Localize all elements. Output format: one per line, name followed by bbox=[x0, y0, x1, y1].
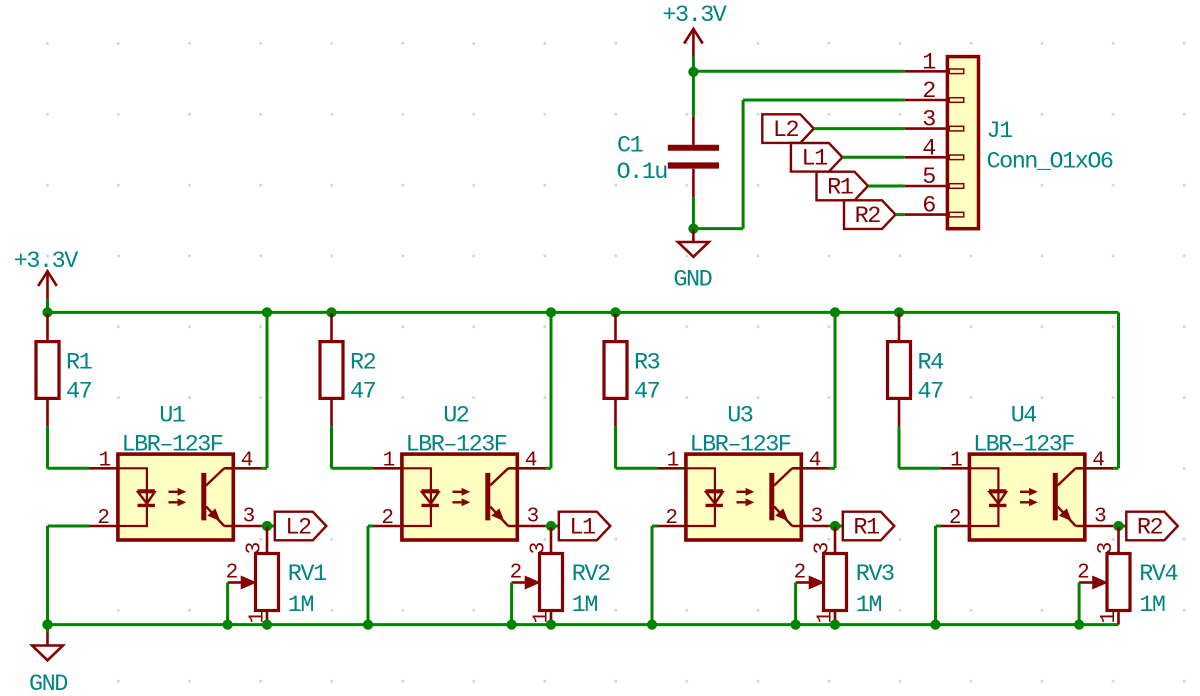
pin 1 U2 bbox=[374, 467, 402, 470]
svg-text:4: 4 bbox=[1092, 449, 1104, 472]
junction bbox=[647, 620, 657, 630]
svg-text:R2: R2 bbox=[1137, 514, 1163, 541]
pin 3 U3 bbox=[792, 525, 830, 528]
pin 3 U4 bbox=[1076, 525, 1114, 528]
connector J1 bbox=[947, 57, 978, 229]
light arrows inside U4 bbox=[1020, 491, 1033, 493]
svg-text:3: 3 bbox=[527, 506, 539, 529]
wire bbox=[332, 467, 374, 470]
LED inside U4 bbox=[969, 468, 998, 505]
junction bbox=[610, 307, 620, 317]
svg-text:47: 47 bbox=[918, 378, 944, 405]
svg-text:R4: R4 bbox=[918, 350, 944, 377]
svg-text:2: 2 bbox=[794, 562, 806, 585]
svg-text:3: 3 bbox=[811, 506, 823, 529]
svg-text:1: 1 bbox=[950, 449, 962, 472]
svg-text:GND: GND bbox=[673, 267, 711, 294]
svg-text:LBR–123F: LBR–123F bbox=[973, 432, 1074, 459]
wiper pin 2 RV4 bbox=[1079, 581, 1094, 584]
svg-text:1M: 1M bbox=[1139, 592, 1165, 619]
svg-text:1M: 1M bbox=[856, 592, 882, 619]
svg-text:U4: U4 bbox=[1011, 403, 1037, 430]
global label L1 bbox=[559, 512, 611, 541]
svg-text:O.1u: O.1u bbox=[617, 159, 668, 186]
potentiometer RV1 bbox=[266, 527, 269, 554]
potentiometer RV4 bbox=[1117, 527, 1120, 554]
junction bbox=[791, 620, 801, 630]
wire bbox=[692, 197, 695, 228]
global label L2 bbox=[275, 512, 327, 541]
transistor inside U4 bbox=[1053, 473, 1058, 521]
wire bbox=[830, 467, 835, 470]
svg-text:2: 2 bbox=[949, 507, 961, 530]
svg-text:L1: L1 bbox=[569, 514, 595, 541]
junction bbox=[262, 521, 272, 531]
wire bbox=[1078, 583, 1081, 625]
svg-text:4: 4 bbox=[809, 449, 821, 472]
transistor inside U1 bbox=[201, 473, 206, 521]
svg-text:4: 4 bbox=[922, 135, 935, 162]
wire bbox=[46, 299, 49, 313]
wire bbox=[899, 467, 941, 470]
transistor inside U2 bbox=[485, 473, 490, 521]
wire bbox=[743, 99, 905, 102]
svg-text:1: 1 bbox=[99, 449, 111, 472]
svg-text:R1: R1 bbox=[853, 514, 879, 541]
global label R1 bbox=[817, 172, 869, 201]
wire bbox=[652, 525, 658, 528]
pin 1 U4 bbox=[941, 467, 969, 470]
pin 5 J1 bbox=[905, 185, 948, 188]
svg-text:C1: C1 bbox=[617, 133, 643, 160]
svg-text:2: 2 bbox=[97, 507, 109, 530]
wire bbox=[48, 311, 1119, 314]
power symbol +3.3V bbox=[692, 28, 695, 56]
wire bbox=[692, 72, 695, 117]
svg-text:R3: R3 bbox=[634, 350, 660, 377]
svg-text:1M: 1M bbox=[288, 592, 314, 619]
wire bbox=[46, 427, 49, 469]
svg-text:2: 2 bbox=[1077, 562, 1089, 585]
power symbol +3.3V bbox=[46, 271, 49, 299]
svg-text:+3.3V: +3.3V bbox=[14, 248, 78, 275]
svg-text:1: 1 bbox=[922, 49, 935, 76]
svg-text:LBR–123F: LBR–123F bbox=[406, 432, 507, 459]
svg-text:U2: U2 bbox=[443, 403, 469, 430]
pin 2 U3 bbox=[658, 525, 686, 528]
wire bbox=[834, 312, 837, 468]
svg-text:2: 2 bbox=[226, 562, 238, 585]
wire bbox=[266, 312, 269, 468]
svg-text:RV1: RV1 bbox=[288, 561, 326, 588]
wire bbox=[510, 583, 513, 625]
pin 2 U2 bbox=[374, 525, 402, 528]
op-amp U3 optocoupler LBR-123F bbox=[686, 454, 801, 540]
wire bbox=[896, 213, 905, 216]
wire bbox=[367, 526, 370, 625]
junction bbox=[830, 521, 840, 531]
svg-text:Conn_O1xO6: Conn_O1xO6 bbox=[987, 149, 1113, 176]
junction bbox=[1074, 620, 1084, 630]
svg-text:U1: U1 bbox=[159, 403, 185, 430]
global label L1 bbox=[791, 143, 843, 172]
svg-text:47: 47 bbox=[66, 378, 92, 405]
svg-text:5: 5 bbox=[922, 164, 935, 191]
wire bbox=[842, 156, 904, 159]
potentiometer RV2 bbox=[550, 527, 553, 554]
global label R2 bbox=[844, 200, 896, 229]
svg-text:LBR–123F: LBR–123F bbox=[122, 432, 223, 459]
wire bbox=[262, 467, 267, 470]
svg-text:R1: R1 bbox=[827, 174, 853, 201]
wire bbox=[550, 312, 553, 468]
svg-text:RV3: RV3 bbox=[856, 561, 894, 588]
svg-text:3: 3 bbox=[1094, 506, 1106, 529]
pin 2 J1 bbox=[905, 99, 948, 102]
wire bbox=[48, 467, 90, 470]
resistor R3 bbox=[614, 314, 617, 342]
svg-text:1: 1 bbox=[383, 449, 395, 472]
junction bbox=[262, 307, 272, 317]
pin 4 U4 bbox=[1076, 467, 1114, 470]
LED inside U1 bbox=[118, 468, 147, 505]
pin 4 U3 bbox=[792, 467, 830, 470]
pin 4 U2 bbox=[508, 467, 546, 470]
svg-text:1: 1 bbox=[1098, 611, 1121, 623]
resistor R4 bbox=[898, 314, 901, 342]
junction bbox=[223, 620, 233, 630]
wiper pin 2 RV3 bbox=[796, 581, 811, 584]
svg-text:R2: R2 bbox=[855, 203, 881, 230]
junction bbox=[830, 620, 840, 630]
svg-text:1: 1 bbox=[667, 449, 679, 472]
resistor R2 bbox=[330, 314, 333, 342]
junction bbox=[546, 620, 556, 630]
junction bbox=[830, 307, 840, 317]
pin 4 J1 bbox=[905, 156, 948, 159]
light arrows inside U1 bbox=[169, 491, 182, 493]
svg-text:R2: R2 bbox=[350, 350, 376, 377]
global label R1 bbox=[843, 512, 895, 541]
potentiometer RV3 bbox=[834, 527, 837, 554]
svg-text:J1: J1 bbox=[987, 118, 1013, 145]
wire bbox=[616, 467, 658, 470]
wire bbox=[1117, 312, 1120, 468]
svg-text:R1: R1 bbox=[66, 350, 92, 377]
wire bbox=[1113, 467, 1118, 470]
pin 2 U1 bbox=[90, 525, 118, 528]
junction bbox=[546, 307, 556, 317]
wire bbox=[936, 525, 942, 528]
ground bbox=[46, 632, 49, 645]
wire bbox=[48, 623, 1119, 626]
svg-text:RV2: RV2 bbox=[572, 561, 610, 588]
junction bbox=[546, 521, 556, 531]
wire bbox=[693, 227, 743, 230]
wire bbox=[693, 70, 904, 73]
pin 2 U4 bbox=[941, 525, 969, 528]
junction bbox=[894, 307, 904, 317]
wire bbox=[48, 525, 90, 528]
svg-text:LBR–123F: LBR–123F bbox=[690, 432, 791, 459]
svg-text:1M: 1M bbox=[572, 592, 598, 619]
op-amp U4 optocoupler LBR-123F bbox=[969, 454, 1084, 540]
svg-text:47: 47 bbox=[350, 378, 376, 405]
junction bbox=[42, 620, 52, 630]
global label R2 bbox=[1126, 512, 1178, 541]
svg-text:6: 6 bbox=[922, 193, 935, 220]
wire bbox=[868, 185, 905, 188]
wiper pin 2 RV2 bbox=[512, 581, 527, 584]
svg-text:3: 3 bbox=[243, 506, 255, 529]
pin 3 U1 bbox=[224, 525, 262, 528]
wire bbox=[614, 427, 617, 469]
svg-text:3: 3 bbox=[922, 107, 935, 134]
pin 3 J1 bbox=[905, 127, 948, 130]
global label L2 bbox=[762, 114, 814, 143]
junction bbox=[688, 224, 698, 234]
svg-text:RV4: RV4 bbox=[1139, 561, 1177, 588]
pin 1 U3 bbox=[658, 467, 686, 470]
capacitor C1 bbox=[692, 116, 695, 144]
wire bbox=[368, 525, 374, 528]
wire bbox=[934, 526, 937, 625]
pin 1 J1 bbox=[905, 70, 948, 73]
svg-text:47: 47 bbox=[634, 378, 660, 405]
svg-text:4: 4 bbox=[241, 449, 253, 472]
wire bbox=[742, 100, 745, 229]
transistor inside U3 bbox=[769, 473, 774, 521]
junction bbox=[326, 307, 336, 317]
svg-text:4: 4 bbox=[525, 449, 537, 472]
wire bbox=[814, 127, 905, 130]
junction bbox=[42, 307, 52, 317]
op-amp U1 optocoupler LBR-123F bbox=[118, 454, 233, 540]
junction bbox=[363, 620, 373, 630]
svg-text:2: 2 bbox=[381, 507, 393, 530]
light arrows inside U2 bbox=[453, 491, 466, 493]
wire bbox=[226, 583, 229, 625]
junction bbox=[1113, 521, 1123, 531]
wire bbox=[330, 427, 333, 469]
wire bbox=[262, 525, 275, 528]
ground bbox=[692, 229, 695, 242]
svg-text:2: 2 bbox=[922, 78, 935, 105]
junction bbox=[688, 67, 698, 77]
op-amp U2 optocoupler LBR-123F bbox=[402, 454, 517, 540]
pin 6 J1 bbox=[905, 213, 948, 216]
wire bbox=[794, 583, 797, 625]
junction bbox=[507, 620, 517, 630]
wiper pin 2 RV1 bbox=[228, 581, 243, 584]
wire bbox=[546, 467, 551, 470]
pin 3 U2 bbox=[508, 525, 546, 528]
junction bbox=[930, 620, 940, 630]
svg-text:GND: GND bbox=[29, 671, 67, 696]
svg-text:U3: U3 bbox=[727, 403, 753, 430]
junction bbox=[42, 620, 52, 630]
wire bbox=[692, 57, 695, 72]
wire bbox=[898, 427, 901, 469]
LED inside U3 bbox=[686, 468, 715, 505]
wire bbox=[830, 525, 843, 528]
wire bbox=[46, 625, 49, 633]
svg-text:2: 2 bbox=[510, 562, 522, 585]
resistor R1 bbox=[46, 314, 49, 342]
LED inside U2 bbox=[402, 468, 431, 505]
wire bbox=[46, 526, 49, 625]
wire bbox=[546, 525, 559, 528]
junction bbox=[262, 620, 272, 630]
svg-text:L1: L1 bbox=[802, 146, 828, 173]
svg-text:2: 2 bbox=[665, 507, 677, 530]
pin 4 U1 bbox=[224, 467, 262, 470]
svg-text:L2: L2 bbox=[285, 514, 311, 541]
svg-text:+3.3V: +3.3V bbox=[662, 2, 726, 29]
light arrows inside U3 bbox=[737, 491, 750, 493]
wire bbox=[651, 526, 654, 625]
pin 1 U1 bbox=[90, 467, 118, 470]
svg-text:L2: L2 bbox=[773, 117, 799, 144]
wire bbox=[1113, 525, 1126, 528]
